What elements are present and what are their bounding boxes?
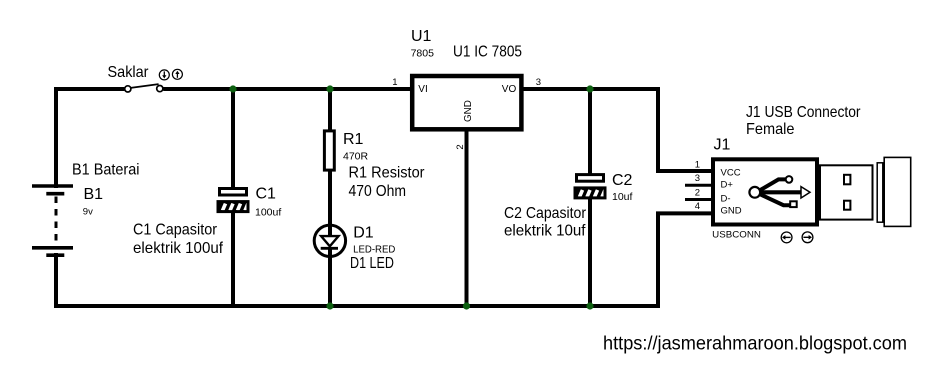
value 100uf <box>255 207 281 219</box>
svg-text:2: 2 <box>455 144 466 149</box>
svg-text:elektrik 100uf: elektrik 100uf <box>133 240 224 257</box>
svg-text:U1 IC 7805: U1 IC 7805 <box>453 44 522 61</box>
svg-text:3: 3 <box>536 77 541 88</box>
pin number 1 <box>392 77 397 88</box>
reference U1 <box>411 28 432 45</box>
wire battery positive to top rail <box>56 89 124 188</box>
label blog url <box>603 333 907 355</box>
pin number 2 <box>455 144 466 149</box>
label C1 Capasitor elektrik 100uf <box>133 222 224 258</box>
svg-text:C1 Capasitor: C1 Capasitor <box>133 222 218 239</box>
svg-text:VO: VO <box>502 84 517 95</box>
label U1 IC 7805 <box>453 44 522 61</box>
label Saklar <box>108 64 150 81</box>
svg-text:LED-RED: LED-RED <box>353 244 396 256</box>
reference B1 <box>84 186 104 203</box>
capacitor C2 <box>575 175 605 198</box>
wire R1 branch from top rail <box>328 87 332 131</box>
wire D1 to bottom rail <box>328 255 332 308</box>
svg-text:10uf: 10uf <box>612 191 633 203</box>
reference C2 <box>612 172 633 189</box>
pin number 1 <box>695 160 700 171</box>
USB plug shaft <box>820 165 873 219</box>
svg-text:B1 Baterai: B1 Baterai <box>72 162 140 179</box>
svg-text:470R: 470R <box>343 150 369 162</box>
svg-text:100uf: 100uf <box>255 207 281 219</box>
resistor R1 <box>324 131 334 170</box>
pin number 3 <box>695 173 700 184</box>
wire R1 to D1 <box>328 170 332 227</box>
svg-text:7805: 7805 <box>411 47 435 59</box>
svg-text:C2: C2 <box>612 172 633 189</box>
value 470R <box>343 150 369 162</box>
USB trident icon <box>749 176 810 207</box>
pin name GND <box>462 100 474 122</box>
svg-text:J1: J1 <box>714 137 731 154</box>
reference J1 <box>714 137 731 154</box>
svg-text:4: 4 <box>695 201 700 212</box>
svg-text:C1: C1 <box>256 186 277 203</box>
svg-text:1: 1 <box>695 160 700 171</box>
polarity symbol circled right arrow <box>802 232 813 243</box>
junction top rail C2 <box>586 85 593 92</box>
pin name D- <box>721 194 731 205</box>
svg-text:R1 Resistor: R1 Resistor <box>349 164 426 181</box>
pin name VO <box>502 84 517 95</box>
svg-text:1: 1 <box>392 77 397 88</box>
wire U1 GND pin 2 to bottom rail <box>465 130 469 308</box>
wire C1 branch from top rail <box>231 87 235 189</box>
junction top rail C1 <box>229 85 236 92</box>
wire C1 to bottom rail <box>231 211 235 307</box>
value 7805 <box>411 47 435 59</box>
LED D1 <box>314 225 345 256</box>
pin number 2 <box>695 188 700 199</box>
switch S1 Saklar <box>125 84 163 92</box>
svg-text:9v: 9v <box>83 206 93 217</box>
wire bottom rail from battery to J1 pin 4 <box>56 213 712 306</box>
svg-text:D1: D1 <box>353 224 374 241</box>
wire J1 pin 2 stub <box>685 198 712 201</box>
pin number 3 <box>536 77 541 88</box>
switch actuator symbol circled up arrow <box>172 69 182 79</box>
junction bottom rail U1 GND <box>463 302 470 309</box>
label R1 Resistor 470 Ohm <box>349 164 426 200</box>
svg-text:C2 Capasitor: C2 Capasitor <box>504 205 587 222</box>
label C2 Capasitor elektrik 10uf <box>504 205 587 240</box>
svg-text:VCC: VCC <box>721 167 741 178</box>
svg-text:U1: U1 <box>411 28 432 45</box>
svg-text:3: 3 <box>695 173 700 184</box>
svg-text:2: 2 <box>695 188 700 199</box>
reference R1 <box>343 131 364 148</box>
value LED-RED <box>353 244 396 256</box>
connector J1 USBCONN body <box>713 159 817 224</box>
pin name VI <box>418 84 427 95</box>
pin name VCC <box>721 167 741 178</box>
USB plug body <box>884 157 911 226</box>
polarity symbol circled left arrow <box>781 232 792 243</box>
battery B1 <box>32 186 73 255</box>
svg-text:GND: GND <box>462 100 474 122</box>
svg-text:D1 LED: D1 LED <box>350 255 394 272</box>
wire top rail from switch to U1 VI <box>163 87 412 91</box>
pin number 4 <box>695 201 700 212</box>
svg-text:470 Ohm: 470 Ohm <box>349 183 407 200</box>
label J1 USB Connector Female <box>746 104 861 138</box>
op-amp U1 regulator 7805 body <box>412 76 521 129</box>
pin name GND <box>721 206 742 217</box>
value 10uf <box>612 191 633 203</box>
wire top rail from U1 VO to J1 pin 1 <box>522 89 712 171</box>
svg-text:https://jasmerahmaroon.blogspo: https://jasmerahmaroon.blogspot.com <box>603 333 907 355</box>
switch actuator symbol circled down arrow <box>159 70 169 80</box>
pin name D+ <box>721 179 734 190</box>
reference C1 <box>256 186 277 203</box>
svg-text:GND: GND <box>721 206 742 217</box>
label D1 LED <box>350 255 394 272</box>
USB plug collar <box>877 163 883 222</box>
svg-text:Female: Female <box>746 121 795 138</box>
svg-text:Saklar: Saklar <box>108 64 150 81</box>
value 9v <box>83 206 93 217</box>
svg-text:J1 USB Connector: J1 USB Connector <box>746 104 861 121</box>
reference D1 <box>353 224 374 241</box>
svg-text:D+: D+ <box>721 179 734 190</box>
junction bottom rail C2 <box>586 302 593 309</box>
wire C2 branch from top rail <box>588 87 592 175</box>
svg-text:B1: B1 <box>84 186 104 203</box>
junction top rail R1 <box>326 85 333 92</box>
capacitor C1 <box>218 189 248 212</box>
wire J1 pin 3 stub <box>685 184 712 187</box>
svg-text:elektrik 10uf: elektrik 10uf <box>504 223 586 240</box>
value USBCONN <box>712 230 761 241</box>
svg-text:USBCONN: USBCONN <box>712 230 761 241</box>
wire C2 to bottom rail <box>588 197 592 308</box>
svg-text:VI: VI <box>418 84 427 95</box>
junction bottom rail D1 <box>326 302 333 309</box>
svg-text:D-: D- <box>721 194 731 205</box>
label B1 Baterai <box>72 162 140 179</box>
svg-text:R1: R1 <box>343 131 364 148</box>
